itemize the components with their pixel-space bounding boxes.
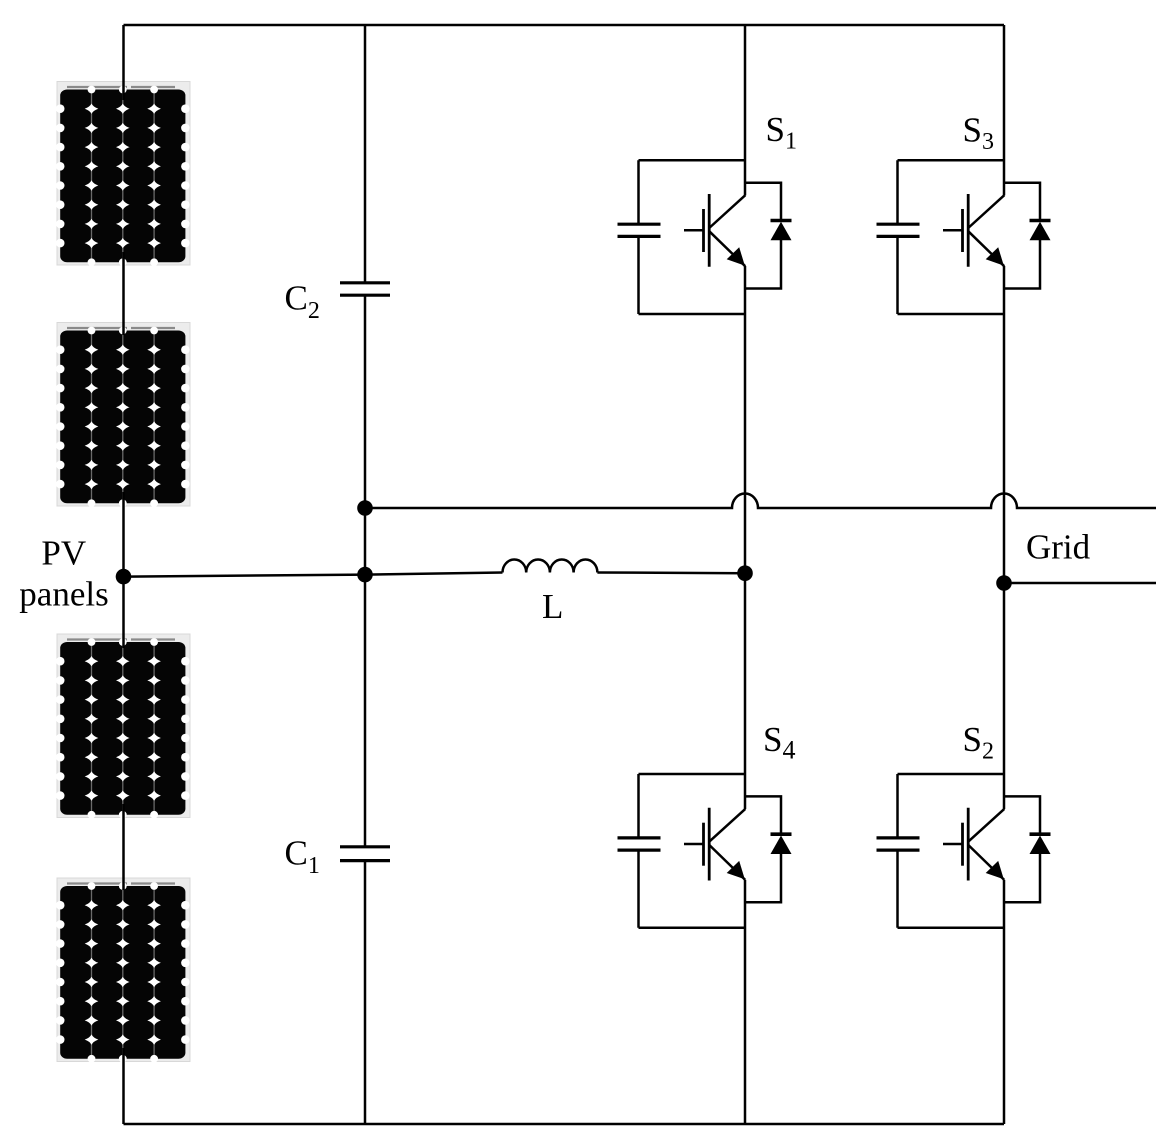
capacitor C1 <box>340 847 390 861</box>
switch S2: IGBT with antiparallel diode and snubber capacitor <box>877 774 1051 928</box>
svg-text:Grid: Grid <box>1026 528 1091 567</box>
wire: PV midpoint to inductor <box>124 573 503 577</box>
wire: top DC rail <box>124 24 1005 27</box>
node: PV string midpoint <box>116 569 132 585</box>
wire: grid lower line <box>1004 582 1156 585</box>
PV panel 2 <box>56 323 190 508</box>
svg-text:L: L <box>542 587 563 626</box>
PV panel 4 <box>56 878 190 1063</box>
node: capacitor midpoint <box>357 567 373 583</box>
svg-text:PV: PV <box>41 534 86 573</box>
PV panel 3 <box>56 634 190 819</box>
node: inverter leg B midpoint / grid <box>996 575 1012 591</box>
switch S3: IGBT with antiparallel diode and snubber capacitor <box>877 160 1051 314</box>
PV panel 1 <box>56 82 190 267</box>
wire: capacitor branch vertical <box>364 25 367 1124</box>
wire: bottom DC rail <box>124 1123 1005 1126</box>
wire: inductor to S1-S4 midpoint <box>597 571 745 574</box>
svg-text:panels: panels <box>19 575 108 614</box>
wire: middle rail to grid with crossover hops <box>365 493 1156 508</box>
wire: S1-S4 branch vertical <box>744 25 747 1124</box>
inductor L <box>503 559 598 572</box>
wire: PV string segments <box>122 25 125 1124</box>
switch S1: IGBT with antiparallel diode and snubber capacitor <box>618 160 792 314</box>
node: inverter leg A midpoint <box>737 565 753 581</box>
switch S4: IGBT with antiparallel diode and snubber capacitor <box>618 774 792 928</box>
capacitor C2 <box>340 283 390 295</box>
wire: S3-S2 branch vertical <box>1003 25 1006 1124</box>
node: middle rail / capacitor branch junction <box>357 500 373 516</box>
